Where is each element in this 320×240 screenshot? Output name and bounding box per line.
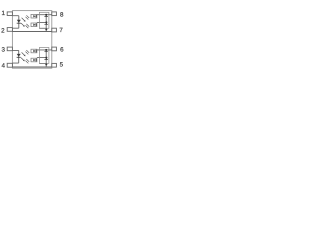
svg-text:5: 5 xyxy=(60,62,64,69)
svg-text:7: 7 xyxy=(59,27,63,34)
svg-text:6: 6 xyxy=(60,47,64,54)
svg-text:3: 3 xyxy=(1,46,5,53)
svg-text:8: 8 xyxy=(60,12,64,19)
svg-text:4: 4 xyxy=(2,63,6,70)
svg-text:2: 2 xyxy=(1,28,5,35)
svg-text:1: 1 xyxy=(2,10,6,17)
